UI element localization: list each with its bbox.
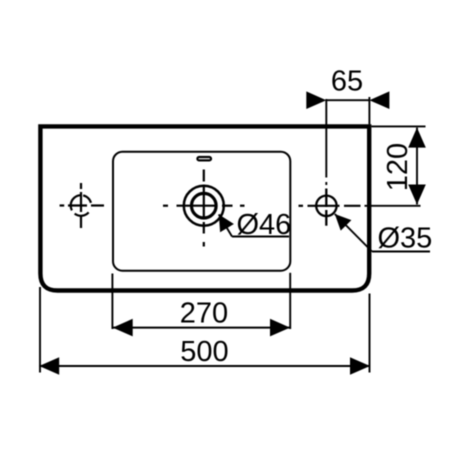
dim 120 top extension line [372, 125, 426, 127]
dim 65 right arrow [369, 91, 389, 109]
leader arrow for hole 46 [219, 214, 234, 232]
svg-text:120: 120 [382, 143, 414, 191]
svg-text:Ø35: Ø35 [378, 223, 433, 255]
dim 270 right extension line [289, 273, 291, 329]
svg-text:270: 270 [180, 298, 228, 330]
tap hole 35 horizontal center line / 120 bottom extension [299, 205, 421, 207]
tap hole 35 circle [316, 196, 336, 216]
leader underline 35 [372, 251, 430, 253]
basin outer outline [40, 126, 369, 290]
dim 500 left extension line [39, 287, 41, 373]
dim 500 line [39, 365, 370, 367]
left knockout hole dashed circle [71, 195, 81, 204]
faucet hole outer circle [184, 186, 224, 226]
svg-text:Ø46: Ø46 [237, 209, 292, 241]
leader arrow for hole 35 [335, 214, 352, 231]
faucet hole inner circle [192, 193, 217, 218]
knockout vertical center line [80, 183, 82, 228]
faucet hole vertical center line [203, 170, 205, 247]
knockout horizontal center line [60, 204, 104, 206]
dim 120 bottom arrow [408, 185, 426, 205]
leader underline 46 [232, 236, 289, 238]
dim 270 left extension line [111, 274, 113, 330]
dim 500 right extension line [369, 294, 371, 373]
leader line for hole 35 [335, 214, 372, 252]
dim 65 right extension line [368, 97, 370, 124]
dim 270 right arrow [270, 319, 290, 337]
dim 65 left arrow [306, 91, 326, 109]
svg-text:500: 500 [180, 336, 228, 368]
dim 270 line [112, 327, 290, 329]
basin inner bowl outline [113, 152, 290, 271]
dim 500 left arrow [39, 357, 59, 375]
tap hole 35 vertical center line / 65 extension [325, 99, 327, 226]
svg-text:65: 65 [331, 66, 363, 98]
dim 120 top arrow [408, 128, 426, 148]
faucet hole horizontal center line [163, 205, 245, 207]
dim 270 left arrow [113, 319, 133, 337]
dim 65 line [326, 99, 369, 101]
dim 500 right arrow [350, 357, 370, 375]
dim 120 line [416, 128, 418, 205]
leader line for hole 46 [219, 214, 232, 236]
overflow slot [197, 157, 211, 160]
